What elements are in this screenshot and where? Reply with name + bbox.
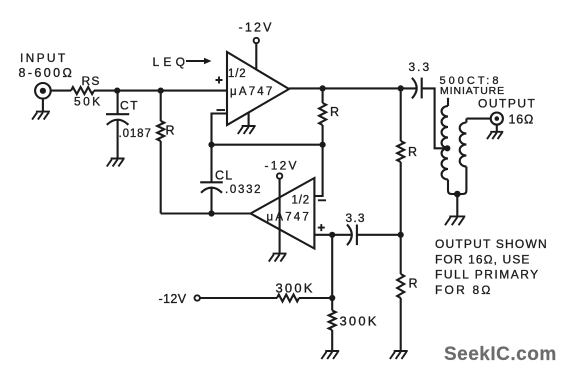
wire input to RS xyxy=(51,90,71,92)
node rail left xyxy=(208,142,214,148)
terminal -12V (U2 supply) xyxy=(265,159,299,254)
wire 300K to ground xyxy=(331,330,333,351)
op-amp U2 1/2 uA747 xyxy=(251,178,326,249)
ground (transformer) xyxy=(445,216,465,225)
wire U2 noninverting stub xyxy=(314,234,332,236)
wire secondary to output connector xyxy=(466,118,490,120)
resistor R (input shunt) xyxy=(157,91,175,141)
wire U1 inverting input stub xyxy=(212,114,228,145)
node CL / U2 output xyxy=(208,210,214,216)
svg-text:.0187: .0187 xyxy=(119,128,152,140)
ground (300K) xyxy=(321,351,339,359)
capacitor 3.3 (upper) xyxy=(409,60,448,148)
svg-text:FULL PRIMARY: FULL PRIMARY xyxy=(435,268,540,282)
svg-text:50K: 50K xyxy=(74,95,103,109)
resistor R (lower of output divider) xyxy=(397,235,418,298)
terminal -12V (U1 supply) xyxy=(239,21,274,70)
svg-text:-12V: -12V xyxy=(159,292,187,306)
wire U2 output horizontal xyxy=(161,212,251,214)
svg-text:300K: 300K xyxy=(340,314,379,329)
svg-text:MINIATURE: MINIATURE xyxy=(440,85,505,97)
transformer T1 secondary winding xyxy=(457,119,466,194)
wire 300K to junction xyxy=(299,297,332,299)
capacitor CT .0187 xyxy=(106,91,152,140)
svg-text:1/2: 1/2 xyxy=(228,68,246,80)
svg-text:FOR 8Ω: FOR 8Ω xyxy=(435,283,493,297)
wire -12V to 300K xyxy=(200,297,277,299)
wire R down to U2 output line xyxy=(160,141,162,214)
wire feedback down to U2 inverting input xyxy=(314,125,322,196)
resistor RS 50K xyxy=(71,74,103,109)
label OUTPUT 16ohm xyxy=(478,97,536,127)
node output to 3.3 cap xyxy=(398,85,404,91)
terminal -12V (bias) xyxy=(159,292,200,306)
node U1 output / feedback xyxy=(320,85,326,91)
svg-text:-12V: -12V xyxy=(239,21,274,35)
svg-text:-12V: -12V xyxy=(265,159,299,173)
svg-text:1/2: 1/2 xyxy=(292,195,310,207)
wire rail (inverting bus) xyxy=(212,144,323,146)
svg-text:μA747: μA747 xyxy=(267,212,311,224)
ground (U2) xyxy=(269,254,287,262)
resistor R (U1 feedback) xyxy=(319,88,340,125)
wire RS to op-amp + input xyxy=(94,90,227,92)
label 500CT:8 MINIATURE xyxy=(440,75,506,97)
svg-text:R: R xyxy=(330,105,340,119)
svg-text:8-600Ω: 8-600Ω xyxy=(19,66,75,80)
wire R to ground xyxy=(400,298,402,351)
note OUTPUT SHOWN FOR 16ohm xyxy=(435,237,548,297)
svg-text:OUTPUT SHOWN: OUTPUT SHOWN xyxy=(435,237,548,251)
label LEQ with arrow xyxy=(153,55,212,69)
svg-text:3.3: 3.3 xyxy=(346,211,366,225)
capacitor 3.3 (lower) xyxy=(332,211,401,245)
node transformer bottom xyxy=(454,191,461,198)
svg-text:OUTPUT: OUTPUT xyxy=(478,97,536,111)
svg-text:R: R xyxy=(166,124,176,138)
wire U1 output xyxy=(289,87,417,89)
svg-text:.0332: .0332 xyxy=(225,184,262,196)
ground (input connector) xyxy=(32,99,50,120)
resistor 300K (vertical) xyxy=(329,298,379,330)
svg-text:FOR 16Ω, USE: FOR 16Ω, USE xyxy=(435,252,531,266)
svg-text:RS: RS xyxy=(82,74,101,88)
op-amp U1 1/2 uA747 xyxy=(216,52,290,125)
svg-text:R: R xyxy=(409,277,419,291)
svg-text:R: R xyxy=(408,145,418,159)
ground (CT) xyxy=(107,159,125,167)
wire CL to U2 output line xyxy=(210,188,212,214)
wire transformer bottom to ground xyxy=(456,194,458,216)
node U2 + input xyxy=(329,232,335,238)
capacitor CL .0332 xyxy=(200,145,262,196)
resistor R (upper of output divider) xyxy=(397,88,418,162)
node rail right xyxy=(320,142,326,148)
node lower cap to R line xyxy=(398,232,404,238)
svg-text:μA747: μA747 xyxy=(230,86,274,98)
svg-text:16Ω: 16Ω xyxy=(509,113,535,127)
node (CT junction) xyxy=(114,88,120,94)
svg-text:3.3: 3.3 xyxy=(409,60,432,74)
wire R to node xyxy=(400,162,402,235)
svg-text:LEQ: LEQ xyxy=(153,55,190,69)
svg-text:CT: CT xyxy=(120,99,139,113)
connector OUTPUT xyxy=(491,113,503,125)
ground (U1) xyxy=(238,113,256,134)
ground (output connector) xyxy=(487,125,503,139)
ground (output divider) xyxy=(390,351,408,359)
wire +node down to 300K junction xyxy=(331,235,333,298)
node 300K junction xyxy=(329,295,335,301)
wire CT to ground xyxy=(117,120,119,158)
node center tap xyxy=(444,145,450,151)
node (R junction) xyxy=(158,88,164,94)
transformer T1 primary winding xyxy=(442,98,458,194)
svg-text:CL: CL xyxy=(215,169,233,183)
svg-text:300K: 300K xyxy=(276,281,315,296)
label INPUT 8-600ohm xyxy=(19,51,75,80)
resistor 300K (horizontal) xyxy=(276,281,315,302)
connector J1 INPUT xyxy=(35,83,51,99)
svg-text:INPUT: INPUT xyxy=(20,51,68,65)
svg-text:SeekIC.com: SeekIC.com xyxy=(444,344,557,365)
